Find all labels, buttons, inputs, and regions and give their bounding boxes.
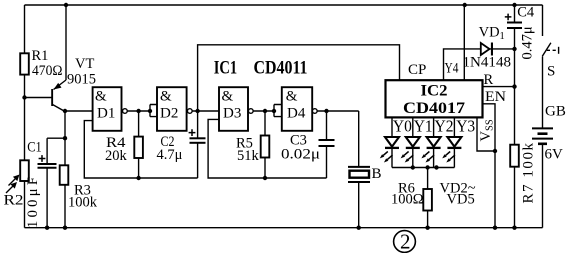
svg-text:Y4: Y4 xyxy=(445,61,459,77)
svg-text:R: R xyxy=(484,72,494,88)
svg-text:0.47μ: 0.47μ xyxy=(520,26,536,59)
svg-text:IC1: IC1 xyxy=(214,59,238,79)
svg-text:C1: C1 xyxy=(27,140,42,156)
svg-text:R2: R2 xyxy=(4,193,24,209)
svg-text:S: S xyxy=(547,64,555,80)
svg-text:100Ω: 100Ω xyxy=(391,192,424,208)
svg-text:0.02μ: 0.02μ xyxy=(281,147,320,163)
svg-text:Y2: Y2 xyxy=(435,117,454,136)
svg-text:4.7μ: 4.7μ xyxy=(157,147,183,163)
svg-text:&: & xyxy=(286,89,298,105)
svg-text:D2: D2 xyxy=(160,106,178,122)
svg-text:2: 2 xyxy=(400,230,411,253)
svg-text:R1: R1 xyxy=(32,48,49,64)
svg-text:Y0: Y0 xyxy=(393,117,412,136)
svg-text:Y3: Y3 xyxy=(456,117,475,136)
svg-text:1N4148: 1N4148 xyxy=(463,55,512,71)
svg-text:&: & xyxy=(160,89,172,105)
svg-text:CD4011: CD4011 xyxy=(254,59,308,79)
svg-text:CD4017: CD4017 xyxy=(403,100,465,117)
svg-text:B: B xyxy=(372,166,382,182)
svg-text:20k: 20k xyxy=(105,148,128,164)
svg-text:6V: 6V xyxy=(545,147,564,163)
svg-text:D4: D4 xyxy=(287,106,306,122)
svg-text:VT: VT xyxy=(75,56,94,72)
svg-text:100k: 100k xyxy=(68,195,98,211)
svg-text:GB: GB xyxy=(545,104,566,120)
svg-text:&: & xyxy=(95,89,107,105)
svg-text:CP: CP xyxy=(408,62,426,78)
svg-text:D1: D1 xyxy=(97,106,115,122)
svg-text:470Ω: 470Ω xyxy=(32,63,63,79)
svg-text:VD5: VD5 xyxy=(447,192,475,208)
svg-text:&: & xyxy=(222,89,234,105)
svg-text:IC2: IC2 xyxy=(421,83,448,100)
svg-text:C4: C4 xyxy=(517,4,535,20)
svg-text:EN: EN xyxy=(485,89,507,105)
svg-text:51k: 51k xyxy=(237,148,260,164)
svg-text:9015: 9015 xyxy=(67,72,96,88)
svg-text:D3: D3 xyxy=(223,106,241,122)
svg-text:Y1: Y1 xyxy=(414,117,433,136)
